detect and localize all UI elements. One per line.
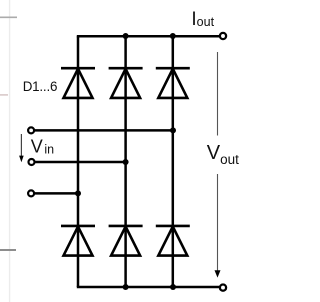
Vout arrowhead — [215, 270, 221, 277]
diode D1 — [61, 68, 95, 98]
junction phase1 / leg3 — [170, 127, 176, 133]
terminal phase 1 — [28, 127, 34, 133]
Vin arrowhead — [19, 156, 24, 163]
wire vertical leg 3 — [172, 36, 175, 287]
terminal Iout — [220, 33, 226, 39]
Vout arrow line upper — [217, 52, 219, 136]
svg-text:D1...6: D1...6 — [23, 79, 58, 94]
terminal phase 2 — [29, 159, 35, 165]
Vin arrow line — [20, 134, 22, 157]
diode D3 — [156, 68, 190, 98]
junction bottom rail / leg2 — [123, 284, 129, 290]
diode D2 — [109, 68, 143, 98]
junction top rail / leg2 — [123, 33, 129, 39]
junction bottom rail / leg3 — [170, 284, 176, 290]
wire phase 1 input row — [35, 129, 173, 132]
terminal bottom output — [220, 285, 226, 291]
wire vertical leg 1 — [77, 36, 80, 287]
wire vertical leg 2 — [124, 36, 127, 287]
diode D4 — [61, 226, 95, 256]
junction phase2 / leg2 — [123, 159, 129, 165]
wire phase 2 input row — [35, 161, 125, 164]
wire bottom rail (- bus) — [77, 286, 220, 289]
diode D5 — [109, 226, 143, 256]
diode D6 — [156, 226, 190, 256]
wire phase 3 input row — [35, 192, 78, 195]
terminal phase 3 — [28, 190, 34, 196]
Vout arrow line lower — [217, 174, 219, 271]
junction phase3 / leg1 — [75, 190, 81, 196]
wire top rail (+ bus) — [77, 35, 220, 38]
junction top rail / leg3 — [170, 33, 176, 39]
